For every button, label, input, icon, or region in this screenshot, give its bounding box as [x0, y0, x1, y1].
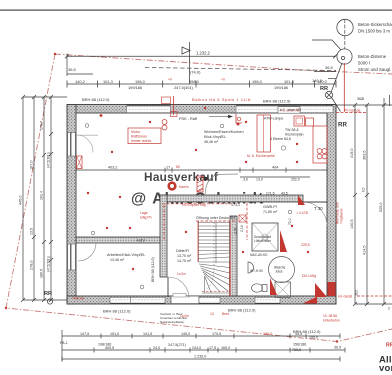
svg-text:1o,0m: 1o,0m [180, 314, 189, 318]
svg-text:140,0: 140,0 [317, 79, 328, 84]
red pipe below cistern [343, 63, 345, 112]
svg-text:198,0: 198,0 [135, 79, 146, 84]
svg-text:278,0: 278,0 [30, 260, 34, 270]
svg-text:DN 1500 bis 3 m: DN 1500 bis 3 m [358, 29, 390, 34]
svg-text:414,5: 414,5 [363, 245, 367, 255]
svg-text:+0: +0 [221, 78, 225, 82]
svg-text:MAC-AV-KD: MAC-AV-KD [250, 253, 268, 257]
svg-text:71,80 m²: 71,80 m² [263, 210, 278, 214]
door arc T30 bathroom [303, 202, 327, 226]
svg-text:TWB 38: TWB 38 [72, 297, 84, 301]
svg-text:Balkon HA 6 Spots 1 11/A: Balkon HA 6 Spots 1 11/A [192, 97, 251, 102]
svg-text:419,0: 419,0 [350, 148, 354, 158]
svg-text:HZ 8 Spots ring: HZ 8 Spots ring [182, 203, 206, 207]
red triangles [280, 230, 287, 252]
svg-text:(74,0): (74,0) [190, 70, 201, 75]
svg-text:Küchenplan: Küchenplan [285, 133, 304, 137]
svg-text:Beton-Zisterne: Beton-Zisterne [358, 54, 387, 59]
dashed reference line [145, 68, 336, 71]
door arc top of stairs (wall A into Wohnen) [205, 174, 238, 195]
svg-text:190,0: 190,0 [263, 332, 272, 336]
svg-text:TW-38 &: TW-38 & [285, 128, 299, 132]
svg-text:398,0: 398,0 [189, 79, 200, 84]
small red box with X near bath top [239, 215, 246, 222]
svg-text:ATW-Lampe: ATW-Lampe [264, 117, 283, 121]
svg-text:10..38 66: 10..38 66 [323, 314, 337, 318]
window top W2 (large PSK) [236, 105, 333, 113]
36,5 sub dim right [314, 71, 336, 73]
door arc wall B bottom [167, 277, 169, 297]
svg-text:247,5(271): 247,5(271) [168, 343, 186, 347]
svg-text:199/186: 199/186 [128, 85, 142, 90]
svg-text:43,5: 43,5 [281, 192, 288, 196]
svg-text:36,5: 36,5 [325, 65, 334, 70]
red stair-side dashed [229, 262, 231, 296]
svg-text:44,5: 44,5 [295, 332, 302, 336]
svg-text:151,0: 151,0 [110, 332, 119, 336]
svg-text:(47,5(301)): (47,5(301)) [47, 152, 51, 168]
stair red stringers [197, 221, 199, 262]
svg-text:Beet: Beet [222, 312, 229, 316]
svg-text:755,5: 755,5 [292, 348, 301, 352]
window left W3 [68, 133, 76, 157]
svg-text:140,2: 140,2 [75, 79, 85, 84]
hob circles [317, 149, 322, 154]
svg-text:Ph-Garage: Ph-Garage [344, 109, 361, 113]
svg-text:400,5: 400,5 [105, 346, 114, 350]
svg-text:M. 6. Küchenzeile: M. 6. Küchenzeile [247, 154, 275, 158]
svg-text:vor Ort: vor Ort [379, 363, 392, 374]
walk line [206, 222, 214, 290]
svg-text:T 30: T 30 [314, 206, 323, 211]
svg-text:WT-H-90: WT-H-90 [250, 269, 263, 273]
svg-text:RR: RR [44, 291, 52, 297]
Zisterne circle [337, 49, 352, 64]
svg-text:252,0: 252,0 [291, 178, 300, 182]
svg-text:RR: RR [386, 343, 392, 349]
svg-text:173,1: 173,1 [231, 203, 240, 207]
svg-text:145,0: 145,0 [181, 332, 190, 336]
svg-text:167,0: 167,0 [30, 160, 34, 170]
sink [248, 262, 254, 273]
WC [252, 284, 263, 292]
svg-text:195,0: 195,0 [309, 336, 318, 340]
arrow Zuluft [209, 116, 229, 118]
interior dim chain y=170 [76, 169, 327, 171]
svg-text:36,5: 36,5 [334, 346, 341, 350]
36,5 sub dim left [67, 73, 93, 75]
left wall [67, 105, 76, 305]
red dashed line under wall A [162, 203, 236, 205]
svg-text:140,5: 140,5 [350, 219, 354, 229]
svg-text:170,5: 170,5 [212, 332, 221, 336]
Ph-Garage red dashes [336, 112, 367, 114]
svg-text:5000 l: 5000 l [358, 61, 370, 66]
window bottom W5b sidelight [199, 297, 220, 304]
red raffstore bracket right [236, 114, 242, 123]
svg-text:2,14: 2,14 [240, 225, 244, 232]
svg-text:179,7: 179,7 [40, 121, 44, 130]
window bottom W6 [255, 297, 280, 304]
sink unit red [294, 116, 305, 126]
red triangle on bottom wall [303, 297, 317, 304]
svg-text:Lage:: Lage: [140, 211, 149, 215]
bottom wall [67, 296, 336, 304]
svg-text:6,5: 6,5 [362, 187, 366, 192]
svg-text:Julca: Julca [275, 270, 283, 274]
top dimension chain [67, 81, 336, 88]
svg-text:RR: RR [320, 86, 328, 92]
svg-text:Klick-Vinyl/EL: Klick-Vinyl/EL [204, 135, 226, 139]
property boundary red dashed polygon [55, 54, 392, 74]
door arc wall C [78, 243, 96, 261]
svg-text:BRH 88 (112.0): BRH 88 (112.0) [151, 257, 155, 282]
svg-text:PA,1: PA,1 [60, 341, 68, 345]
svg-text:1.235,0: 1.235,0 [194, 355, 206, 359]
bottom dim chains [62, 330, 345, 362]
svg-text:BRH 88 (112.0): BRH 88 (112.0) [82, 97, 110, 102]
svg-text:1o,0m: 1o,0m [177, 272, 186, 276]
svg-text:(47,5(301)): (47,5(301)) [47, 256, 51, 272]
svg-text:244,0: 244,0 [192, 346, 201, 350]
svg-text:363,5: 363,5 [363, 150, 367, 160]
counter red right [313, 126, 327, 163]
svg-text:3,6: 3,6 [243, 178, 248, 182]
wall C (Arbeiten top) [76, 237, 160, 243]
svg-text:RR: RR [338, 122, 347, 129]
svg-text:PSK - Raff: PSK - Raff [179, 117, 198, 121]
red dashed partition [246, 203, 248, 240]
shower enclosure [252, 223, 278, 251]
svg-text:141,5: 141,5 [143, 332, 152, 336]
svg-text:GWB-Pl: GWB-Pl [263, 205, 277, 209]
entrance door opening bottom [171, 294, 199, 305]
svg-text:17: 17 [166, 166, 170, 170]
svg-text:156/186: 156/186 [293, 343, 306, 347]
svg-text:Kamin: Kamin [179, 185, 189, 189]
svg-text:Wohnen/Essen/Kochen: Wohnen/Essen/Kochen [204, 130, 244, 134]
wall A (Wohnen/Diele) [160, 195, 303, 202]
svg-text:BRH 88 (112.5): BRH 88 (112.5) [263, 99, 291, 104]
svg-text:36,5: 36,5 [68, 67, 77, 72]
svg-text:Unterbeton: Unterbeton [323, 319, 340, 323]
svg-text:101,3: 101,3 [103, 79, 113, 84]
right wall [327, 105, 336, 305]
svg-text:13,0: 13,0 [256, 178, 263, 182]
window left W4 [68, 244, 76, 270]
washing machine [275, 282, 291, 298]
svg-text:1.232,2: 1.232,2 [196, 51, 211, 56]
svg-text:HZV: HZV [137, 238, 145, 243]
connecting pipe vertical [344, 19, 346, 49]
svg-text:171,5: 171,5 [266, 192, 275, 196]
svg-text:Natursteinpflaster: Natursteinpflaster [160, 320, 184, 324]
lights small circles [85, 124, 89, 128]
svg-text:525,0: 525,0 [379, 202, 383, 212]
svg-text:Strom und Saugl.: Strom und Saugl. [358, 67, 391, 72]
svg-text:17,5: 17,5 [209, 346, 216, 350]
svg-text:Beton-Sickerschacht: Beton-Sickerschacht [358, 22, 392, 27]
leader to cistern [312, 40, 341, 50]
svg-text:180,5: 180,5 [40, 269, 44, 278]
right dim lines [336, 95, 392, 306]
svg-text:101,4: 101,4 [40, 191, 44, 200]
round tub [269, 257, 295, 283]
svg-text:13,5: 13,5 [30, 228, 34, 235]
svg-text:-i 4 LED: -i 4 LED [296, 211, 309, 215]
benchmark flag [182, 42, 190, 84]
window bottom W5 [110, 297, 165, 304]
svg-text:14,75 m²: 14,75 m² [177, 259, 192, 263]
svg-text:2: 2 [361, 97, 363, 101]
Hz-Gerät red box [328, 282, 336, 296]
svg-text:immer rechts: immer rechts [131, 139, 151, 143]
stair opening dashed red [196, 220, 237, 222]
svg-text:225,5: 225,5 [301, 243, 310, 247]
svg-text:Arbeiten/Klick-Vinyl/EL: Arbeiten/Klick-Vinyl/EL [107, 253, 145, 257]
svg-text:luftg.Ph: luftg.Ph [140, 216, 152, 220]
Sickerschacht circle [337, 19, 353, 35]
svg-text:Öffnung unter Decke 3/4: Öffnung unter Decke 3/4 [196, 216, 235, 220]
Kamin red circle [167, 181, 176, 190]
Motor Raffstoren red box [128, 128, 161, 144]
svg-text:Lüftufenster: Lüftufenster [254, 239, 272, 243]
svg-text:Hz-Gerät: Hz-Gerät [338, 295, 352, 299]
svg-text:Diele/Fl: Diele/Fl [176, 249, 189, 253]
red hatched column near stairs [197, 176, 203, 192]
sheet top border line [0, 10, 392, 11]
svg-text:2,78: 2,78 [234, 228, 238, 234]
svg-text:BRH 88 (112.0): BRH 88 (112.0) [228, 308, 256, 313]
svg-text:BRH 88 (112.0): BRH 88 (112.0) [103, 309, 131, 314]
svg-text:13,70 m²: 13,70 m² [177, 254, 192, 258]
svg-text:13,46 m²: 13,46 m² [110, 258, 125, 262]
svg-text:+0: +0 [168, 78, 172, 82]
svg-text:199/186: 199/186 [274, 85, 288, 90]
svg-text:198,0: 198,0 [252, 79, 263, 84]
wall B vertical [160, 195, 167, 277]
svg-text:13: 13 [210, 312, 214, 316]
svg-text:24,0: 24,0 [153, 346, 160, 350]
svg-text:165,0: 165,0 [221, 346, 230, 350]
svg-text:DD-Lüftg: DD-Lüftg [302, 274, 316, 278]
svg-text:72,0: 72,0 [288, 218, 292, 225]
interior dim chain y=177 [240, 176, 310, 178]
svg-text:80: 80 [176, 165, 180, 169]
svg-text:147,5: 147,5 [80, 332, 89, 336]
svg-text:101,3: 101,3 [284, 79, 294, 84]
svg-text:Tropfkante: Tropfkante [340, 208, 344, 224]
svg-text:4 C. ohne VN: 4 C. ohne VN [280, 108, 301, 112]
svg-text:247,5(301): 247,5(301) [174, 85, 194, 90]
top wall [67, 105, 336, 114]
black junction square [204, 177, 207, 180]
svg-text:36,5: 36,5 [355, 290, 359, 296]
overall dimension 1.232,2 line [67, 55, 336, 57]
svg-text:2: 2 [388, 307, 390, 311]
svg-text:404: 404 [272, 166, 278, 170]
red dashed vertical along wall B [163, 205, 165, 240]
red dots scattered [87, 107, 309, 270]
svg-text:4 Ebene 84,5: 4 Ebene 84,5 [270, 137, 291, 141]
annotation box on wall: 4 C. ohne VN [278, 107, 300, 114]
svg-text:Raffstoren: Raffstoren [131, 135, 147, 139]
red heating manifold left wall [77, 156, 83, 169]
svg-text:46,46 m²: 46,46 m² [204, 140, 219, 144]
window top W1 [127, 105, 171, 113]
terrace door arcs left [79, 135, 93, 153]
island red [257, 115, 271, 152]
svg-text:Motor: Motor [131, 130, 141, 134]
svg-text:445,0: 445,0 [19, 195, 23, 205]
svg-text:403,2: 403,2 [108, 166, 118, 170]
wall D (stair right) [230, 216, 237, 296]
red motor line and circles [173, 96, 175, 115]
